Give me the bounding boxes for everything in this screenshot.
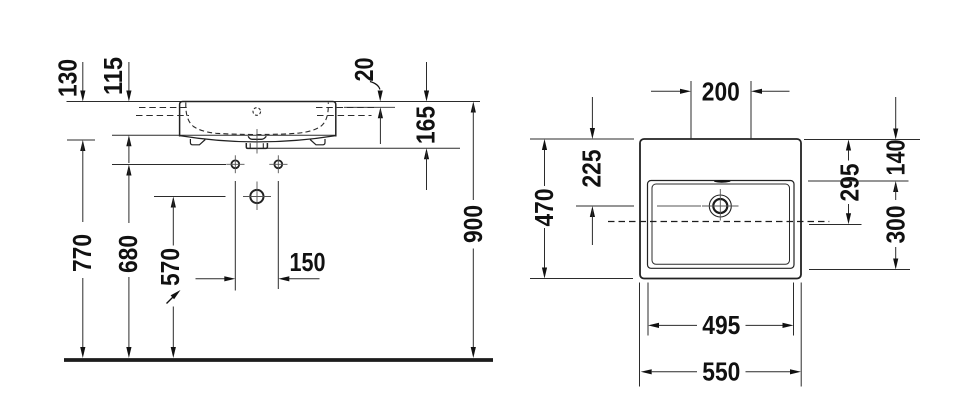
svg-text:495: 495 (702, 310, 740, 340)
svg-text:225: 225 (576, 150, 606, 188)
svg-text:300: 300 (881, 206, 911, 244)
svg-text:200: 200 (702, 77, 740, 107)
svg-text:680: 680 (113, 235, 143, 273)
svg-text:550: 550 (702, 357, 740, 387)
svg-text:165: 165 (411, 106, 441, 144)
svg-text:470: 470 (529, 189, 559, 227)
svg-text:570: 570 (155, 248, 185, 286)
svg-text:770: 770 (67, 234, 97, 272)
svg-text:900: 900 (458, 205, 488, 243)
svg-text:115: 115 (98, 57, 128, 95)
svg-text:20: 20 (349, 58, 379, 82)
svg-text:295: 295 (834, 164, 864, 202)
svg-text:150: 150 (290, 247, 326, 277)
svg-text:140: 140 (881, 140, 911, 176)
svg-text:130: 130 (52, 59, 82, 97)
